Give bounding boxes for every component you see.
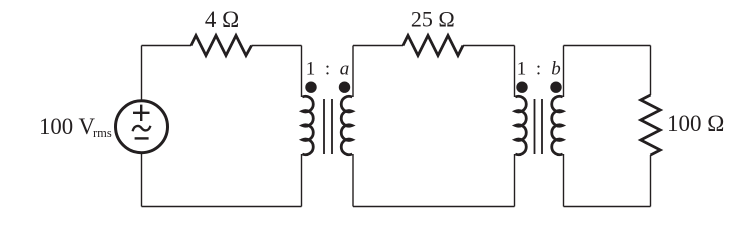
wire transformer1 secondary top lead [352,46,354,98]
source Vs circle [116,101,168,153]
svg-text::: : [536,59,541,80]
resistor 4ohm [191,36,252,56]
wire transformer2 primary top lead [514,46,516,98]
resistor 100ohm [641,95,661,155]
svg-text:4 Ω: 4 Ω [205,7,239,32]
transformer1 core [324,99,332,154]
transformer1 primary dot [305,82,316,93]
resistor 25ohm [403,36,463,56]
source sine symbol [133,126,151,132]
wire middle loop bottom [353,206,515,208]
wire left loop left vertical lower [141,153,143,206]
svg-text:a: a [340,59,350,80]
wire transformer2 primary bottom lead [514,154,516,207]
svg-text:1: 1 [517,59,527,80]
source plus sign [133,105,150,121]
svg-text:100 Ω: 100 Ω [667,111,724,136]
transformer1 primary coil [302,96,313,154]
wire top after R1 [252,45,302,47]
wire left loop left vertical upper [141,46,143,101]
wire right loop bottom [564,206,651,208]
wire transformer1 primary bottom lead [301,154,303,207]
wire right loop right vertical lower [650,155,652,207]
wire right loop top [564,45,651,47]
wire left loop top [142,45,192,47]
wire right loop right vertical upper [650,46,652,96]
wire transformer1 primary top lead [301,46,303,98]
svg-text::: : [325,59,330,80]
transformer2 primary dot [516,82,527,93]
wire middle loop top right [463,45,515,47]
svg-text:25 Ω: 25 Ω [411,7,455,32]
transformer1 secondary dot [339,82,350,93]
wire middle loop top left [353,45,403,47]
transformer2 primary coil [515,96,526,154]
svg-text:1: 1 [306,59,316,80]
wire transformer1 secondary bottom lead [352,154,354,207]
transformer2 secondary dot [550,82,561,93]
svg-text:b: b [551,59,561,80]
svg-text:100 Vrms: 100 Vrms [39,114,112,140]
wire transformer2 secondary top lead [563,46,565,98]
transformer2 secondary coil [552,96,563,154]
source minus sign [135,137,149,139]
wire transformer2 secondary bottom lead [563,154,565,207]
transformer1 secondary coil [341,96,352,154]
wire left loop bottom [142,206,302,208]
transformer2 core [535,99,543,154]
